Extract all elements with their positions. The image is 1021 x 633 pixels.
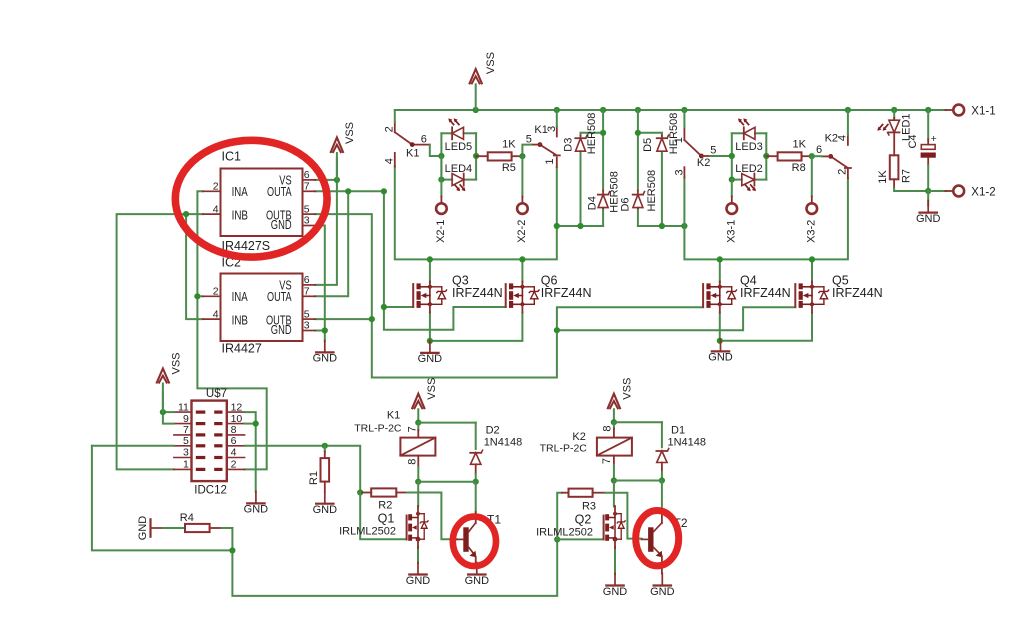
svg-text:1K: 1K bbox=[792, 139, 806, 151]
svg-text:X3-1: X3-1 bbox=[725, 220, 737, 243]
svg-text:6: 6 bbox=[304, 274, 310, 286]
svg-text:GND: GND bbox=[603, 586, 628, 598]
svg-text:GND: GND bbox=[465, 575, 490, 587]
wire VSS node to D2 bbox=[418, 422, 475, 424]
junction D2 bottom node bbox=[473, 479, 479, 485]
junction IC2 GND pin bbox=[322, 327, 328, 333]
junction bottom rail D5 bbox=[659, 223, 665, 229]
svg-text:X3-2: X3-2 bbox=[805, 220, 817, 243]
wire R3 to T2 base bbox=[605, 493, 642, 539]
svg-text:11: 11 bbox=[178, 401, 189, 413]
resistor R3 bbox=[557, 489, 604, 540]
svg-text:TRL-P-2C: TRL-P-2C bbox=[354, 422, 402, 434]
resistor R1 bbox=[308, 446, 329, 492]
junction Q3 drain on X2 rail bbox=[427, 256, 433, 262]
svg-text:U$7: U$7 bbox=[206, 388, 227, 400]
junction R5 right / X2-2 bbox=[519, 153, 525, 159]
junction VSS rail at VSS arrow bbox=[473, 107, 479, 113]
ground GND below T2 bbox=[650, 574, 675, 598]
junction K1 coil pin8 node bbox=[415, 479, 421, 485]
svg-text:LED2: LED2 bbox=[735, 163, 763, 175]
svg-text:GND: GND bbox=[650, 586, 675, 598]
transistor Q6 IRFZ44N bbox=[506, 273, 592, 312]
connector pad X3-1 bbox=[725, 180, 737, 243]
junction VSS rail / K2 pin4 column bbox=[845, 107, 851, 113]
connector pad X2-1 bbox=[435, 180, 447, 243]
relay contact K1-a pins 2,6,4 bbox=[383, 122, 430, 166]
svg-text:4: 4 bbox=[383, 158, 395, 164]
junction IC1 VS bbox=[334, 177, 340, 183]
junction IDC12 pin 10 bbox=[253, 421, 259, 427]
wire Q2 source to GND bbox=[614, 547, 616, 574]
svg-text:3: 3 bbox=[183, 447, 189, 459]
svg-text:R3: R3 bbox=[582, 501, 596, 513]
svg-text:HER508: HER508 bbox=[668, 113, 680, 155]
svg-text:R8: R8 bbox=[792, 162, 806, 174]
wire VSS to IC1/IC2 VS pins bbox=[315, 158, 337, 285]
junction Q3 source GND bbox=[427, 338, 433, 344]
svg-text:GND: GND bbox=[406, 575, 431, 587]
wire Q3-Q6 source rail bbox=[430, 313, 523, 341]
wire IDC12 pin6 to R1 and R2 bbox=[245, 446, 361, 493]
svg-text:IRFZ44N: IRFZ44N bbox=[832, 286, 883, 300]
ground GND below Q4 bbox=[708, 339, 733, 363]
svg-text:K2: K2 bbox=[572, 431, 585, 443]
power VSS arrow at K2 coil bbox=[607, 378, 633, 423]
diode D1 1N4148 bbox=[656, 422, 706, 480]
svg-text:9: 9 bbox=[183, 413, 189, 425]
svg-text:VSS: VSS bbox=[622, 378, 634, 400]
connector pad X1-2 bbox=[928, 186, 995, 199]
svg-text:HER508: HER508 bbox=[646, 170, 658, 212]
ground GND below Q3 bbox=[418, 341, 443, 365]
svg-text:IRFZ44N: IRFZ44N bbox=[452, 286, 503, 300]
svg-text:LED4: LED4 bbox=[445, 163, 473, 175]
wire OUTA net IC1 pin7 to gates of Q3/Q6 and IC2 OUTA bbox=[315, 191, 505, 329]
svg-text:OUTA: OUTA bbox=[267, 185, 292, 199]
junction bottom rail K1 pin1 bbox=[554, 223, 560, 229]
svg-text:3: 3 bbox=[674, 169, 686, 175]
svg-text:1N4148: 1N4148 bbox=[668, 437, 707, 449]
diode D6 HER508 bbox=[619, 170, 658, 212]
svg-text:2: 2 bbox=[213, 181, 219, 193]
led LED4 bbox=[441, 163, 476, 191]
annotation red circle around T2 bbox=[636, 511, 679, 566]
relay contact K2-b pins 1,5,3 bbox=[673, 127, 716, 178]
junction VSS rail / D4 column bbox=[600, 107, 606, 113]
relay contact K1-b pins 3,5,1 bbox=[526, 124, 560, 167]
wire D5 top bend bbox=[638, 133, 662, 136]
wire K1-b pin5 to R5 node bbox=[522, 145, 531, 157]
junction R8 right / X3-2 bbox=[809, 153, 815, 159]
wire K1 pin8 node to Q1 drain bbox=[417, 482, 419, 507]
junction D5 top on D6 column bbox=[635, 130, 641, 136]
power VSS arrow at K1 coil bbox=[412, 378, 438, 423]
svg-text:4: 4 bbox=[231, 447, 237, 459]
junction LED box right bbox=[473, 153, 479, 159]
wire Q2 gate wire bbox=[557, 538, 603, 540]
svg-text:GND: GND bbox=[916, 213, 941, 225]
wire IC GND net bbox=[315, 226, 325, 342]
junction LED box right low bbox=[729, 177, 735, 183]
svg-text:5: 5 bbox=[304, 203, 310, 215]
svg-text:LED3: LED3 bbox=[735, 141, 763, 153]
connector pad X2-2 bbox=[516, 156, 528, 243]
svg-text:6: 6 bbox=[231, 435, 237, 447]
relay coil K2 TRL-P-2C bbox=[540, 422, 632, 480]
svg-text:D1: D1 bbox=[671, 425, 685, 437]
svg-text:2: 2 bbox=[383, 126, 395, 132]
wire K2-a pin6 to X3-2 node bbox=[812, 155, 822, 157]
svg-text:D3: D3 bbox=[563, 138, 575, 152]
svg-text:1: 1 bbox=[673, 137, 685, 143]
wire K1-a pin6 to LED box bbox=[430, 145, 442, 156]
resistor R2 bbox=[360, 488, 407, 511]
svg-text:X2-2: X2-2 bbox=[516, 220, 528, 243]
svg-text:7: 7 bbox=[601, 458, 613, 464]
junction VSS rail / K2 pin1 column bbox=[681, 107, 687, 113]
junction bottom rail K2 pin3 bbox=[681, 223, 687, 229]
svg-text:2: 2 bbox=[213, 286, 219, 298]
svg-text:4: 4 bbox=[213, 203, 219, 215]
svg-text:X1-1: X1-1 bbox=[971, 105, 995, 117]
transistor Q4 IRFZ44N bbox=[703, 273, 791, 312]
junction D1 bottom node bbox=[659, 477, 665, 483]
wire Q4-Q5 source rail bbox=[720, 313, 812, 341]
svg-text:GND: GND bbox=[313, 504, 338, 516]
ground GND below Q2 bbox=[603, 574, 628, 598]
svg-text:R4: R4 bbox=[180, 512, 194, 524]
junction bottom rail D3 bbox=[577, 223, 583, 229]
wire INA net IC1 pin2 / IC2 pin2 to IDC12 pin2 bbox=[197, 191, 266, 469]
power VSS arrow top center bbox=[469, 52, 497, 110]
svg-text:X1-2: X1-2 bbox=[971, 186, 995, 198]
wire VSS top rail bbox=[395, 109, 946, 111]
junction OUTB at IC2 OUTB bbox=[369, 316, 375, 322]
junction R1 top bbox=[322, 443, 328, 449]
ground GND below Q1 bbox=[406, 563, 431, 587]
transistor T1 bbox=[457, 512, 502, 563]
svg-text:VSS: VSS bbox=[170, 352, 182, 374]
wire D1 node to T2 collector bbox=[661, 481, 663, 513]
svg-text:GND: GND bbox=[271, 218, 292, 232]
wire diode bottom rail left segment bbox=[557, 110, 603, 226]
svg-text:INA: INA bbox=[232, 185, 249, 199]
svg-text:1: 1 bbox=[183, 459, 189, 471]
svg-text:GND: GND bbox=[418, 353, 443, 365]
wire K2-b pin5 to LED box bbox=[710, 155, 732, 157]
svg-text:1N4148: 1N4148 bbox=[484, 436, 523, 448]
wire D3 top bend bbox=[581, 133, 604, 136]
svg-text:INB: INB bbox=[232, 313, 248, 327]
svg-text:R7: R7 bbox=[901, 169, 913, 183]
svg-text:7: 7 bbox=[406, 426, 418, 432]
wire K2-b pin1 from rail bbox=[683, 110, 685, 127]
wire R2 node to Q1 gate bbox=[360, 493, 406, 540]
svg-text:R2: R2 bbox=[378, 500, 392, 512]
wire K2 pin7 to D1 bottom bbox=[614, 480, 662, 482]
ground GND below IC2 bbox=[313, 340, 338, 364]
svg-text:D2: D2 bbox=[486, 424, 500, 436]
wire R2 to T1 base bbox=[407, 493, 457, 540]
power VSS arrow at IC1 bbox=[330, 122, 356, 180]
annotation red circle around T1 bbox=[453, 517, 496, 566]
junction VSS rail / C4 column bbox=[925, 107, 931, 113]
svg-text:7: 7 bbox=[304, 181, 310, 193]
wire K2-a pin4 from rail bbox=[847, 110, 849, 135]
wire X3 drain rail bbox=[684, 178, 848, 283]
svg-text:3: 3 bbox=[304, 215, 310, 227]
junction LED box left top bbox=[438, 153, 444, 159]
svg-text:OUTA: OUTA bbox=[267, 290, 292, 304]
svg-text:D5: D5 bbox=[642, 138, 654, 152]
capacitor C4 bbox=[907, 110, 937, 191]
wire K2 pin7 node to Q2 drain bbox=[613, 481, 615, 507]
junction R2 left bbox=[357, 489, 363, 495]
svg-text:1K: 1K bbox=[502, 139, 516, 151]
wire IDC12 pin5 loop to R4 and Q2 gate bbox=[92, 446, 557, 596]
led LED1 bbox=[877, 110, 912, 141]
junction LED box right R8 bbox=[763, 153, 769, 159]
svg-text:HER508: HER508 bbox=[586, 113, 598, 155]
junction INB split bbox=[183, 211, 189, 217]
svg-text:1K: 1K bbox=[877, 170, 889, 184]
svg-text:LED5: LED5 bbox=[445, 141, 473, 153]
svg-text:7: 7 bbox=[304, 286, 310, 298]
resistor R5 1K bbox=[476, 139, 522, 174]
junction OUTA split 2 bbox=[381, 188, 387, 194]
junction R4 tap bbox=[229, 547, 235, 553]
wire VSS to IDC12 pins 11,9 bbox=[163, 392, 174, 424]
svg-text:R1: R1 bbox=[308, 471, 320, 485]
svg-text:R5: R5 bbox=[502, 162, 516, 174]
junction K1 coil VSS node bbox=[415, 420, 421, 426]
diode D3 HER508 bbox=[563, 113, 598, 155]
svg-text:GND: GND bbox=[708, 352, 733, 364]
svg-text:8: 8 bbox=[406, 459, 418, 465]
op-amp driver IC1 IR4427S bbox=[203, 150, 315, 254]
wire X2 drain rail bbox=[395, 167, 557, 282]
svg-text:5: 5 bbox=[526, 133, 532, 145]
junction LED box right top bbox=[729, 153, 735, 159]
svg-text:10: 10 bbox=[231, 413, 243, 425]
junction VSS rail / D6 column bbox=[635, 107, 641, 113]
svg-text:4: 4 bbox=[213, 308, 219, 320]
transistor T2 bbox=[642, 512, 688, 574]
junction K2 coil VSS node bbox=[611, 419, 617, 425]
junction Q2 gate node bbox=[554, 536, 560, 542]
wire INB net IC1 pin4 / IC2 pin4 to IDC12 pin1 bbox=[117, 214, 203, 469]
junction OUTA at Q3 gate bbox=[381, 304, 387, 310]
junction OUTB split to Q4/Q5 gates bbox=[554, 327, 560, 333]
relay contact K2-a pins 4,6,2 bbox=[816, 133, 851, 179]
svg-text:2: 2 bbox=[837, 169, 849, 175]
annotation red ellipse around IC1 bbox=[175, 140, 327, 257]
svg-text:GND: GND bbox=[313, 353, 338, 365]
junction INA at IC2 INA bbox=[194, 293, 200, 299]
junction VSS rail / K1 pin3 column bbox=[554, 107, 560, 113]
junction Q5 drain on X3 rail bbox=[809, 256, 815, 262]
svg-text:GND: GND bbox=[271, 323, 292, 337]
led LED5 bbox=[441, 118, 476, 179]
wire K1-a pin2 from rail bbox=[394, 110, 396, 122]
svg-text:INB: INB bbox=[232, 208, 248, 222]
wire Q1 source to GND bbox=[417, 547, 419, 563]
diode D5 HER508 bbox=[642, 113, 680, 155]
junction Q4 drain on X3 rail bbox=[717, 256, 723, 262]
svg-text:TRL-P-2C: TRL-P-2C bbox=[540, 443, 588, 455]
svg-text:1: 1 bbox=[544, 158, 556, 164]
diode D4 HER508 bbox=[586, 171, 620, 213]
transistor Q3 IRFZ44N bbox=[413, 273, 503, 312]
svg-text:6: 6 bbox=[304, 169, 310, 181]
svg-text:Q1: Q1 bbox=[378, 512, 395, 526]
wire OUTB net IC1 pin5 to IC2 OUTB and gates of Q4/Q5 bbox=[315, 214, 795, 377]
svg-text:VSS: VSS bbox=[344, 122, 356, 144]
svg-text:GND: GND bbox=[244, 504, 269, 516]
led LED2 bbox=[732, 163, 767, 191]
svg-text:VSS: VSS bbox=[426, 378, 438, 400]
svg-text:+: + bbox=[931, 133, 937, 145]
svg-text:IRLML2502: IRLML2502 bbox=[536, 526, 593, 538]
svg-text:IC1: IC1 bbox=[222, 150, 242, 164]
svg-text:12: 12 bbox=[231, 401, 243, 413]
junction Q4 source GND bbox=[717, 338, 723, 344]
svg-text:8: 8 bbox=[602, 426, 614, 432]
wire K1 pin8 to D2 bottom bbox=[418, 481, 476, 483]
svg-text:X2-1: X2-1 bbox=[435, 220, 447, 243]
power VSS arrow at IDC12 bbox=[156, 352, 182, 412]
junction D3 top on D4 column bbox=[600, 130, 606, 136]
svg-text:6: 6 bbox=[421, 134, 427, 146]
connector pad X1-1 bbox=[946, 105, 996, 118]
op-amp driver IC2 IR4427 bbox=[203, 256, 315, 356]
transistor Q2 IRLML2502 bbox=[536, 506, 625, 548]
svg-text:5: 5 bbox=[183, 435, 189, 447]
junction K2 coil pin7 node bbox=[611, 477, 617, 483]
svg-text:K1: K1 bbox=[387, 409, 400, 421]
wire X1-2 node to GND bbox=[927, 191, 929, 206]
svg-text:K2: K2 bbox=[697, 157, 710, 169]
junction VSS rail / LED1 column bbox=[891, 107, 897, 113]
svg-text:K1: K1 bbox=[406, 147, 419, 159]
svg-text:5: 5 bbox=[304, 308, 310, 320]
ground GND below IDC12 bbox=[244, 491, 269, 515]
wire D2 node to T1 collector bbox=[475, 482, 477, 513]
ground GND below C4 bbox=[916, 201, 941, 225]
svg-text:3: 3 bbox=[304, 320, 310, 332]
transistor Q5 IRFZ44N bbox=[795, 273, 882, 312]
led LED3 bbox=[732, 118, 767, 179]
ground GND below T1 bbox=[465, 563, 490, 587]
junction IDC12 pin 11 bbox=[160, 409, 166, 415]
svg-text:INA: INA bbox=[232, 290, 249, 304]
ground GND below R1 bbox=[313, 492, 338, 516]
wire K2 VSS node to D1 bbox=[614, 421, 662, 423]
svg-text:5: 5 bbox=[710, 144, 716, 156]
svg-text:D4: D4 bbox=[586, 196, 598, 210]
resistor R4 bbox=[137, 512, 233, 540]
junction Q6 drain on X2 rail bbox=[519, 256, 525, 262]
resistor R8 1K bbox=[766, 139, 812, 174]
wire IDC12 pins 12,10 to GND bbox=[245, 412, 256, 491]
junction X1-2 node bbox=[925, 188, 931, 194]
diode D2 1N4148 bbox=[470, 423, 522, 482]
svg-text:IRFZ44N: IRFZ44N bbox=[740, 286, 791, 300]
svg-text:2: 2 bbox=[231, 459, 237, 471]
wire K1-b pin3 from rail bbox=[556, 110, 558, 127]
svg-text:IR4427: IR4427 bbox=[222, 342, 262, 356]
svg-text:GND: GND bbox=[137, 516, 149, 541]
connector pad X3-2 bbox=[805, 156, 817, 243]
resistor R7 1K bbox=[877, 132, 928, 191]
svg-text:C4: C4 bbox=[907, 134, 919, 148]
relay coil K1 TRL-P-2C bbox=[354, 409, 435, 481]
svg-text:VSS: VSS bbox=[485, 52, 497, 74]
wire diode bottom rail right segment bbox=[638, 110, 685, 226]
junction OUTA split 1 bbox=[345, 188, 351, 194]
junction LED box left low bbox=[438, 177, 444, 183]
wire LED box mid row bbox=[440, 156, 442, 180]
connector U$7 IDC12 bbox=[174, 388, 245, 497]
svg-text:IRLML2502: IRLML2502 bbox=[339, 525, 396, 537]
svg-text:6: 6 bbox=[816, 144, 822, 156]
svg-text:IDC12: IDC12 bbox=[194, 484, 227, 496]
svg-text:IRFZ44N: IRFZ44N bbox=[541, 286, 592, 300]
transistor Q1 IRLML2502 bbox=[339, 506, 428, 548]
svg-text:D6: D6 bbox=[619, 197, 631, 211]
svg-text:Q2: Q2 bbox=[575, 513, 592, 527]
svg-text:4: 4 bbox=[836, 135, 848, 141]
